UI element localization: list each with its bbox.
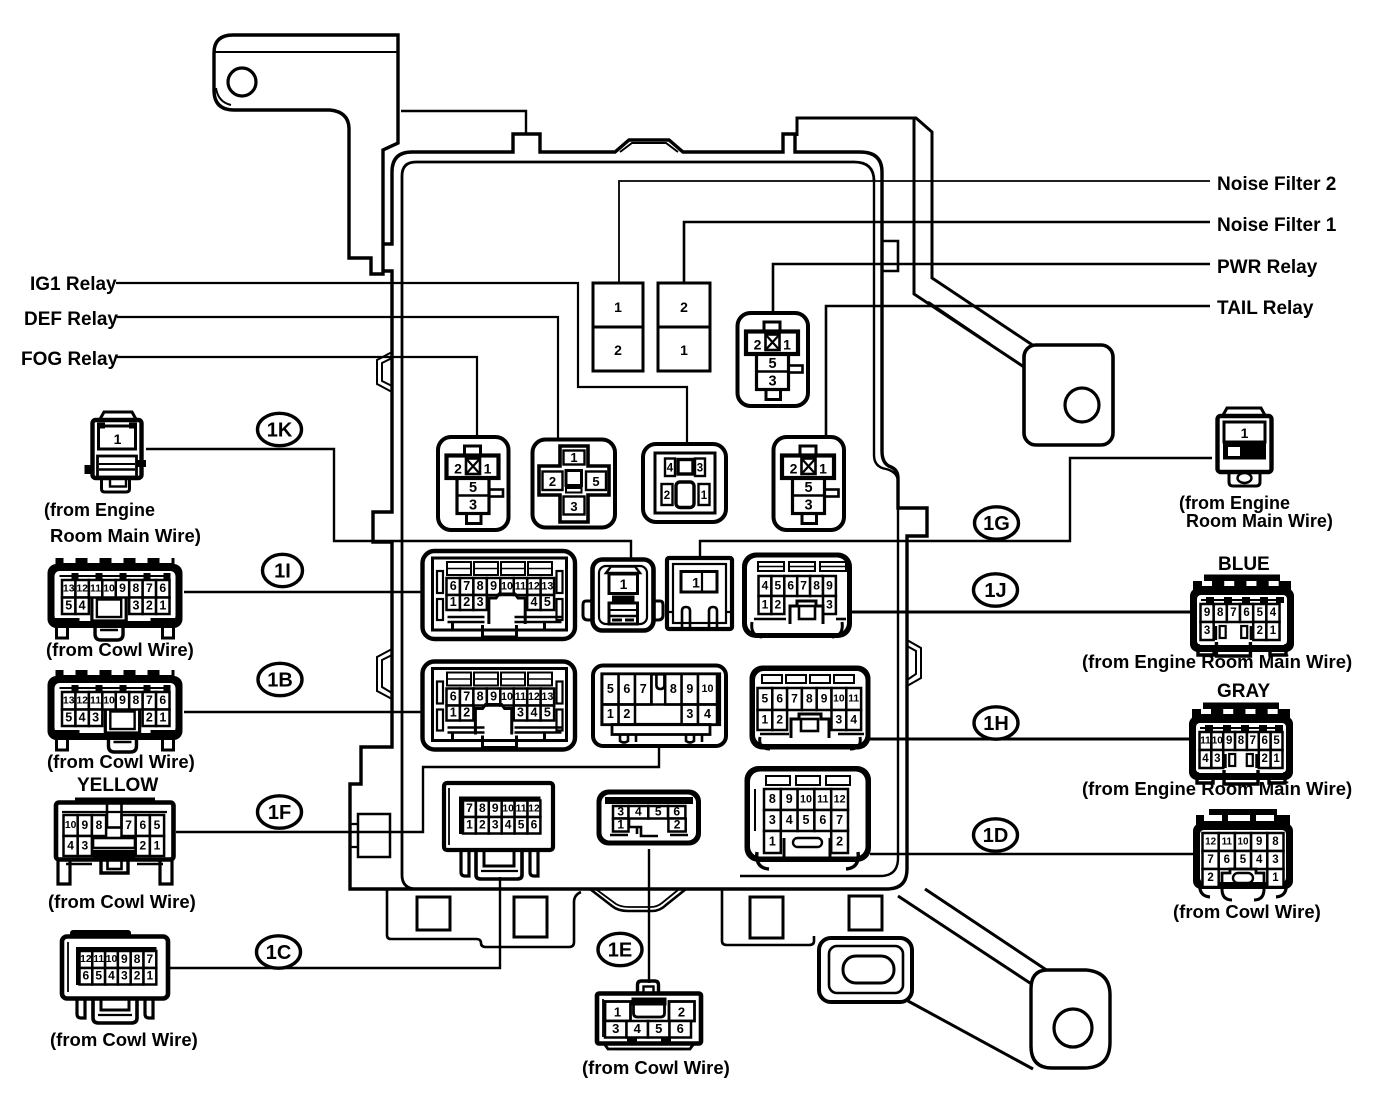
svg-text:11: 11 (1222, 837, 1233, 848)
svg-text:7: 7 (125, 818, 132, 832)
relay TAIL (TAIL Relay) (774, 437, 845, 530)
svg-text:Room Main Wire): Room Main Wire) (1186, 511, 1333, 531)
svg-text:10: 10 (1212, 736, 1223, 747)
svg-text:2: 2 (1207, 872, 1213, 884)
relay DEF (DEF Relay) (533, 440, 616, 528)
svg-text:8: 8 (477, 579, 484, 593)
svg-text:1: 1 (484, 461, 492, 477)
svg-text:12: 12 (80, 954, 92, 965)
svg-text:5: 5 (592, 474, 599, 489)
svg-text:9: 9 (821, 691, 828, 705)
svg-text:YELLOW: YELLOW (77, 775, 158, 796)
svg-text:6: 6 (1262, 735, 1268, 747)
svg-text:5: 5 (544, 595, 551, 609)
noise filter 1 block (658, 283, 710, 371)
fuse box main body outer border (350, 134, 927, 889)
svg-text:8: 8 (134, 952, 141, 966)
svg-text:4: 4 (1256, 854, 1263, 866)
svg-text:2: 2 (134, 969, 141, 983)
svg-text:8: 8 (813, 578, 820, 592)
svg-text:10: 10 (103, 696, 115, 707)
relay IG1 (IG1 Relay) (643, 444, 726, 522)
svg-text:4: 4 (786, 813, 793, 827)
svg-text:TAIL Relay: TAIL Relay (1217, 298, 1314, 319)
svg-text:6: 6 (83, 969, 90, 983)
svg-text:2: 2 (549, 474, 556, 489)
svg-text:1: 1 (147, 969, 154, 983)
bracket top-left lower tail line (401, 111, 526, 134)
svg-text:2: 2 (1257, 625, 1263, 637)
wire leader 1I (184, 591, 424, 593)
svg-text:7: 7 (146, 693, 153, 707)
svg-text:2: 2 (664, 490, 670, 502)
svg-text:1: 1 (466, 818, 473, 832)
label oval 1E (598, 933, 642, 965)
svg-text:1: 1 (159, 598, 166, 612)
svg-text:2: 2 (680, 299, 688, 315)
svg-text:1: 1 (762, 597, 769, 611)
bracket top-left inner edge line (215, 51, 398, 53)
svg-text:6: 6 (677, 1021, 684, 1036)
fuse box top trapezoid bump inner line (620, 143, 678, 152)
svg-text:BLUE: BLUE (1218, 554, 1270, 575)
svg-text:1: 1 (159, 710, 166, 724)
svg-text:4: 4 (530, 706, 537, 720)
svg-text:7: 7 (146, 581, 153, 595)
svg-text:11: 11 (817, 793, 828, 805)
svg-text:7: 7 (836, 813, 843, 827)
svg-text:1: 1 (762, 712, 769, 726)
svg-text:9: 9 (490, 690, 497, 704)
svg-text:11: 11 (515, 691, 526, 703)
svg-text:3: 3 (768, 374, 776, 390)
connector BLUE 1J source (from Engine Room Main Wire) (1204, 575, 1280, 584)
svg-text:1: 1 (680, 342, 688, 358)
fuse box inner border right/bottom (740, 179, 898, 876)
svg-text:6: 6 (139, 818, 146, 832)
svg-text:4: 4 (704, 707, 711, 721)
fuse box left side slot (358, 814, 390, 857)
svg-text:1: 1 (607, 707, 614, 721)
svg-text:13: 13 (63, 584, 75, 595)
svg-text:8: 8 (1238, 735, 1245, 747)
svg-text:5: 5 (65, 598, 72, 612)
svg-text:10: 10 (502, 803, 514, 814)
svg-text:11: 11 (515, 580, 526, 592)
svg-text:4: 4 (667, 463, 674, 475)
connector YELLOW legs (58, 860, 70, 884)
connector 1D feet (1200, 882, 1287, 897)
svg-text:1E: 1E (608, 940, 632, 962)
svg-text:7: 7 (791, 691, 798, 705)
svg-text:3: 3 (92, 710, 99, 724)
svg-text:9: 9 (81, 818, 88, 832)
svg-text:1F: 1F (268, 802, 291, 824)
svg-text:5: 5 (544, 706, 551, 720)
svg-text:5: 5 (154, 818, 161, 832)
fuse box bottom mounting hole 2 (514, 897, 547, 937)
svg-text:12: 12 (834, 793, 846, 805)
wire leader DEF Relay (117, 317, 558, 441)
svg-text:9: 9 (826, 578, 833, 592)
wire leader 1G (700, 458, 1212, 557)
svg-text:4: 4 (850, 712, 857, 726)
svg-text:7: 7 (640, 682, 647, 696)
svg-text:6: 6 (159, 693, 166, 707)
svg-text:4: 4 (505, 818, 512, 832)
svg-text:6: 6 (1243, 607, 1249, 619)
svg-text:6: 6 (450, 579, 457, 593)
svg-text:9: 9 (1256, 836, 1262, 848)
connector 1I mate (in-box, pins 6-13/1-3,4-5) (423, 551, 576, 639)
svg-text:9: 9 (119, 693, 126, 707)
svg-text:8: 8 (479, 801, 486, 815)
relay PWR (PWR Relay) (738, 313, 809, 406)
svg-text:3: 3 (132, 598, 139, 612)
svg-text:8: 8 (1217, 607, 1224, 619)
label oval 1B (258, 663, 302, 695)
svg-text:10: 10 (103, 584, 115, 595)
svg-text:1: 1 (114, 431, 122, 447)
svg-text:6: 6 (623, 682, 630, 696)
svg-text:11: 11 (93, 954, 104, 965)
label oval 1F (258, 796, 302, 828)
svg-text:4: 4 (67, 838, 74, 852)
svg-text:1: 1 (620, 576, 628, 592)
svg-text:4: 4 (1202, 753, 1209, 765)
wire leader 1H (868, 738, 1191, 741)
svg-text:4: 4 (79, 598, 86, 612)
svg-text:1: 1 (450, 595, 457, 609)
svg-text:5: 5 (607, 682, 614, 696)
svg-text:(from Cowl Wire): (from Cowl Wire) (50, 1029, 198, 1050)
connector 1C mate (in-box, pins 7-12/1-6) (444, 783, 553, 850)
svg-text:(from Cowl Wire): (from Cowl Wire) (1173, 901, 1321, 922)
svg-text:11: 11 (516, 803, 527, 814)
svg-text:12: 12 (528, 580, 540, 592)
svg-text:4: 4 (762, 578, 769, 592)
wire leader Noise Filter 1 (684, 222, 1210, 283)
svg-text:5: 5 (1273, 735, 1280, 747)
label oval 1G (975, 507, 1019, 539)
bracket right pad (1024, 345, 1113, 445)
fuse box bottom skirt right (722, 889, 814, 945)
svg-text:PWR Relay: PWR Relay (1217, 257, 1318, 278)
svg-text:(from Cowl Wire): (from Cowl Wire) (46, 639, 194, 660)
svg-text:8: 8 (670, 682, 677, 696)
bracket top-left bolt hole (228, 68, 256, 96)
svg-text:7: 7 (1230, 607, 1236, 619)
svg-text:11: 11 (848, 694, 859, 705)
svg-text:6: 6 (776, 691, 783, 705)
fuse box right edge clip (907, 640, 921, 686)
connector 1C (from Cowl Wire, 12-pin) (70, 930, 131, 940)
svg-text:1: 1 (819, 461, 827, 477)
svg-text:3: 3 (697, 463, 703, 475)
svg-text:8: 8 (477, 690, 484, 704)
svg-text:(from Engine: (from Engine (1179, 493, 1290, 513)
wire leader 1D (870, 853, 1195, 856)
svg-text:2: 2 (1262, 753, 1268, 765)
svg-text:5: 5 (655, 805, 662, 819)
label oval 1J (974, 574, 1018, 606)
bracket bottom-right diagonal band (925, 889, 1048, 971)
noise filter 2 block (593, 283, 643, 371)
label oval 1I (263, 554, 303, 586)
svg-text:3: 3 (769, 813, 776, 827)
svg-text:4: 4 (79, 710, 86, 724)
svg-text:7: 7 (1250, 735, 1256, 747)
svg-text:7: 7 (463, 690, 470, 704)
connector 1H mate (in-box, pins 5-11/1-4) (750, 666, 871, 750)
connector 1G mate (in-box square, pin 1) (667, 558, 732, 629)
svg-text:4: 4 (634, 1021, 642, 1036)
fuse box right edge tab upper (882, 241, 898, 271)
svg-text:2: 2 (463, 706, 470, 720)
svg-text:10: 10 (65, 820, 77, 831)
svg-text:9: 9 (686, 682, 693, 696)
svg-text:7: 7 (147, 952, 154, 966)
svg-text:6: 6 (819, 813, 826, 827)
wire leader TAIL Relay (826, 306, 1210, 438)
svg-text:10: 10 (833, 694, 845, 705)
svg-text:3: 3 (836, 712, 843, 726)
svg-text:4: 4 (1270, 607, 1277, 619)
svg-text:5: 5 (762, 691, 769, 705)
svg-text:2: 2 (139, 838, 146, 852)
svg-text:1D: 1D (983, 825, 1009, 847)
svg-text:2: 2 (776, 712, 783, 726)
svg-text:4: 4 (635, 805, 642, 819)
svg-text:1: 1 (614, 299, 622, 315)
svg-text:3: 3 (477, 595, 484, 609)
svg-text:11: 11 (90, 696, 101, 707)
mounting bracket top-left (214, 35, 398, 274)
svg-text:7: 7 (800, 578, 807, 592)
svg-text:2: 2 (463, 595, 470, 609)
connector 1D mate (in-box, pins 8-12/3-7/1-2) (745, 766, 872, 862)
label oval 1K (258, 413, 302, 445)
svg-text:1K: 1K (267, 420, 293, 442)
svg-text:1: 1 (154, 838, 161, 852)
svg-text:10: 10 (501, 580, 513, 592)
label oval 1H (974, 707, 1018, 739)
svg-text:8: 8 (133, 693, 140, 707)
svg-text:13: 13 (541, 580, 553, 592)
svg-text:1: 1 (783, 337, 791, 353)
svg-text:9: 9 (1226, 735, 1232, 747)
svg-text:9: 9 (121, 952, 128, 966)
wire leader FOG Relay (117, 357, 477, 437)
svg-text:8: 8 (96, 818, 103, 832)
connector 1J mate (in-box, pins 4-9/1-3) (742, 553, 852, 639)
svg-text:1H: 1H (983, 713, 1009, 735)
wire leader 1K (146, 449, 631, 559)
svg-text:10: 10 (106, 954, 118, 965)
svg-text:3: 3 (517, 706, 524, 720)
label oval 1C (257, 936, 301, 968)
connector 1C legs (77, 999, 85, 1019)
svg-text:Room Main Wire): Room Main Wire) (50, 525, 201, 546)
svg-text:5: 5 (655, 1021, 662, 1036)
svg-text:6: 6 (531, 818, 538, 832)
fuse box left edge clip lower (377, 649, 392, 699)
svg-text:1: 1 (1273, 753, 1280, 765)
svg-text:5: 5 (768, 356, 776, 372)
svg-text:13: 13 (541, 691, 553, 703)
svg-text:1C: 1C (266, 942, 292, 964)
svg-text:3: 3 (1214, 753, 1220, 765)
connector 1B (from Cowl Wire, 13-pin) (56, 670, 175, 682)
svg-text:12: 12 (76, 696, 88, 707)
svg-text:4: 4 (108, 969, 115, 983)
svg-text:6: 6 (450, 690, 457, 704)
svg-text:5: 5 (518, 818, 525, 832)
svg-text:10: 10 (800, 793, 812, 805)
svg-text:(from Cowl Wire): (from Cowl Wire) (582, 1057, 730, 1078)
svg-text:9: 9 (490, 579, 497, 593)
svg-text:FOG Relay: FOG Relay (21, 349, 119, 370)
svg-text:3: 3 (826, 597, 833, 611)
svg-text:(from Engine Room Main Wire): (from Engine Room Main Wire) (1082, 778, 1352, 799)
svg-text:5: 5 (469, 480, 477, 496)
svg-text:1: 1 (617, 817, 624, 831)
svg-text:9: 9 (1204, 607, 1210, 619)
svg-text:10: 10 (702, 683, 714, 695)
connector 1E mate (in-box, pins 3-6/1-2) (597, 790, 702, 846)
svg-text:9: 9 (786, 792, 793, 806)
wire leader 1E (648, 849, 650, 983)
wire leader PWR Relay (773, 264, 1210, 313)
connector 1C mate legs (461, 850, 469, 876)
connector 1F mate (in-box, pins 5-10/1-4) (593, 666, 726, 747)
fuse box bottom dip notch (590, 889, 686, 911)
svg-text:3: 3 (492, 818, 499, 832)
bracket right bolt hole (1065, 388, 1099, 422)
svg-text:12: 12 (1205, 837, 1216, 848)
svg-text:12: 12 (528, 803, 540, 814)
svg-text:5: 5 (1257, 607, 1264, 619)
connector 1K mate (in-box small, pin 1) (593, 560, 654, 631)
svg-text:1: 1 (570, 450, 577, 465)
relay FOG (FOG Relay) (438, 437, 509, 530)
connector 1G source (from Engine Room Main Wire) (1222, 408, 1266, 417)
fuse box bottom skirt left (387, 889, 581, 947)
wire leader Noise Filter 2 (619, 181, 1210, 283)
svg-text:3: 3 (121, 969, 128, 983)
svg-text:11: 11 (1200, 736, 1211, 747)
svg-text:10: 10 (1238, 837, 1249, 848)
svg-text:2: 2 (775, 597, 782, 611)
bracket bottom-right bolt hole (1054, 1009, 1092, 1047)
svg-text:2: 2 (836, 835, 843, 849)
svg-text:3: 3 (570, 499, 577, 514)
svg-text:8: 8 (133, 581, 140, 595)
svg-text:12: 12 (528, 691, 540, 703)
svg-text:2: 2 (146, 710, 153, 724)
svg-text:5: 5 (803, 813, 810, 827)
svg-text:2: 2 (479, 818, 486, 832)
svg-text:8: 8 (1272, 836, 1279, 848)
fuse box left edge clip upper (377, 352, 392, 392)
svg-text:3: 3 (81, 838, 88, 852)
svg-text:3: 3 (612, 1021, 619, 1036)
svg-text:2: 2 (146, 598, 153, 612)
svg-text:1: 1 (692, 575, 700, 591)
svg-text:1B: 1B (267, 670, 293, 692)
svg-text:2: 2 (678, 1005, 685, 1020)
connector 1I (from Cowl Wire, 13-pin) (56, 558, 175, 570)
label oval 1D (974, 819, 1018, 851)
fuse box inner border left/top (402, 162, 874, 889)
svg-text:1: 1 (450, 706, 457, 720)
svg-text:3: 3 (1272, 854, 1278, 866)
svg-text:10: 10 (501, 691, 513, 703)
connector 1F source YELLOW (from Cowl Wire) (75, 798, 155, 807)
svg-text:(from Cowl Wire): (from Cowl Wire) (48, 891, 196, 912)
svg-text:Noise Filter 2: Noise Filter 2 (1217, 174, 1336, 195)
svg-text:1G: 1G (983, 513, 1010, 535)
svg-text:3: 3 (804, 498, 812, 514)
svg-text:5: 5 (65, 710, 72, 724)
svg-text:4: 4 (530, 595, 537, 609)
fuse box bottom mounting hole 1 (417, 897, 450, 930)
svg-text:7: 7 (466, 801, 473, 815)
svg-text:6: 6 (159, 581, 166, 595)
connector 1D source (from Cowl Wire) (1209, 809, 1277, 819)
fuse box bottom mounting hole 4 (849, 896, 882, 930)
svg-text:IG1 Relay: IG1 Relay (30, 274, 117, 295)
svg-text:2: 2 (623, 707, 630, 721)
svg-text:2: 2 (674, 817, 681, 831)
svg-text:8: 8 (806, 691, 813, 705)
svg-text:(from Engine Room Main Wire): (from Engine Room Main Wire) (1082, 651, 1352, 672)
svg-text:1: 1 (1270, 625, 1277, 637)
connector 1E source (from Cowl Wire) (638, 981, 659, 994)
svg-text:6: 6 (787, 578, 794, 592)
svg-text:5: 5 (775, 578, 782, 592)
svg-text:12: 12 (76, 584, 88, 595)
wire leader 1J (852, 611, 1192, 614)
connector GRAY 1H source (from Engine Room Main Wire) (1203, 703, 1279, 712)
svg-text:9: 9 (492, 801, 499, 815)
wire leader 1B (184, 711, 424, 713)
svg-text:1J: 1J (984, 580, 1006, 602)
connector 1E source bottom skirt (604, 1044, 694, 1050)
svg-text:7: 7 (1207, 854, 1213, 866)
wire leader 1C (168, 877, 500, 968)
wire leader 1F (176, 748, 659, 832)
svg-text:13: 13 (63, 696, 75, 707)
svg-text:1: 1 (769, 835, 776, 849)
svg-text:1: 1 (1272, 872, 1279, 884)
svg-text:2: 2 (790, 461, 798, 477)
svg-text:1I: 1I (274, 561, 291, 583)
svg-text:GRAY: GRAY (1217, 681, 1270, 702)
wire leader IG1 Relay (116, 283, 687, 442)
svg-text:(from Cowl Wire): (from Cowl Wire) (47, 751, 195, 772)
mounting bracket bottom-right pad on box (819, 938, 912, 1002)
svg-text:1: 1 (1241, 425, 1249, 441)
svg-text:3: 3 (1204, 625, 1210, 637)
svg-text:DEF Relay: DEF Relay (24, 309, 118, 330)
svg-text:6: 6 (1224, 854, 1230, 866)
svg-text:7: 7 (463, 579, 470, 593)
svg-text:9: 9 (119, 581, 126, 595)
fuse box bottom mounting hole 3 (750, 897, 783, 938)
svg-text:3: 3 (469, 498, 477, 514)
svg-text:5: 5 (1240, 854, 1247, 866)
